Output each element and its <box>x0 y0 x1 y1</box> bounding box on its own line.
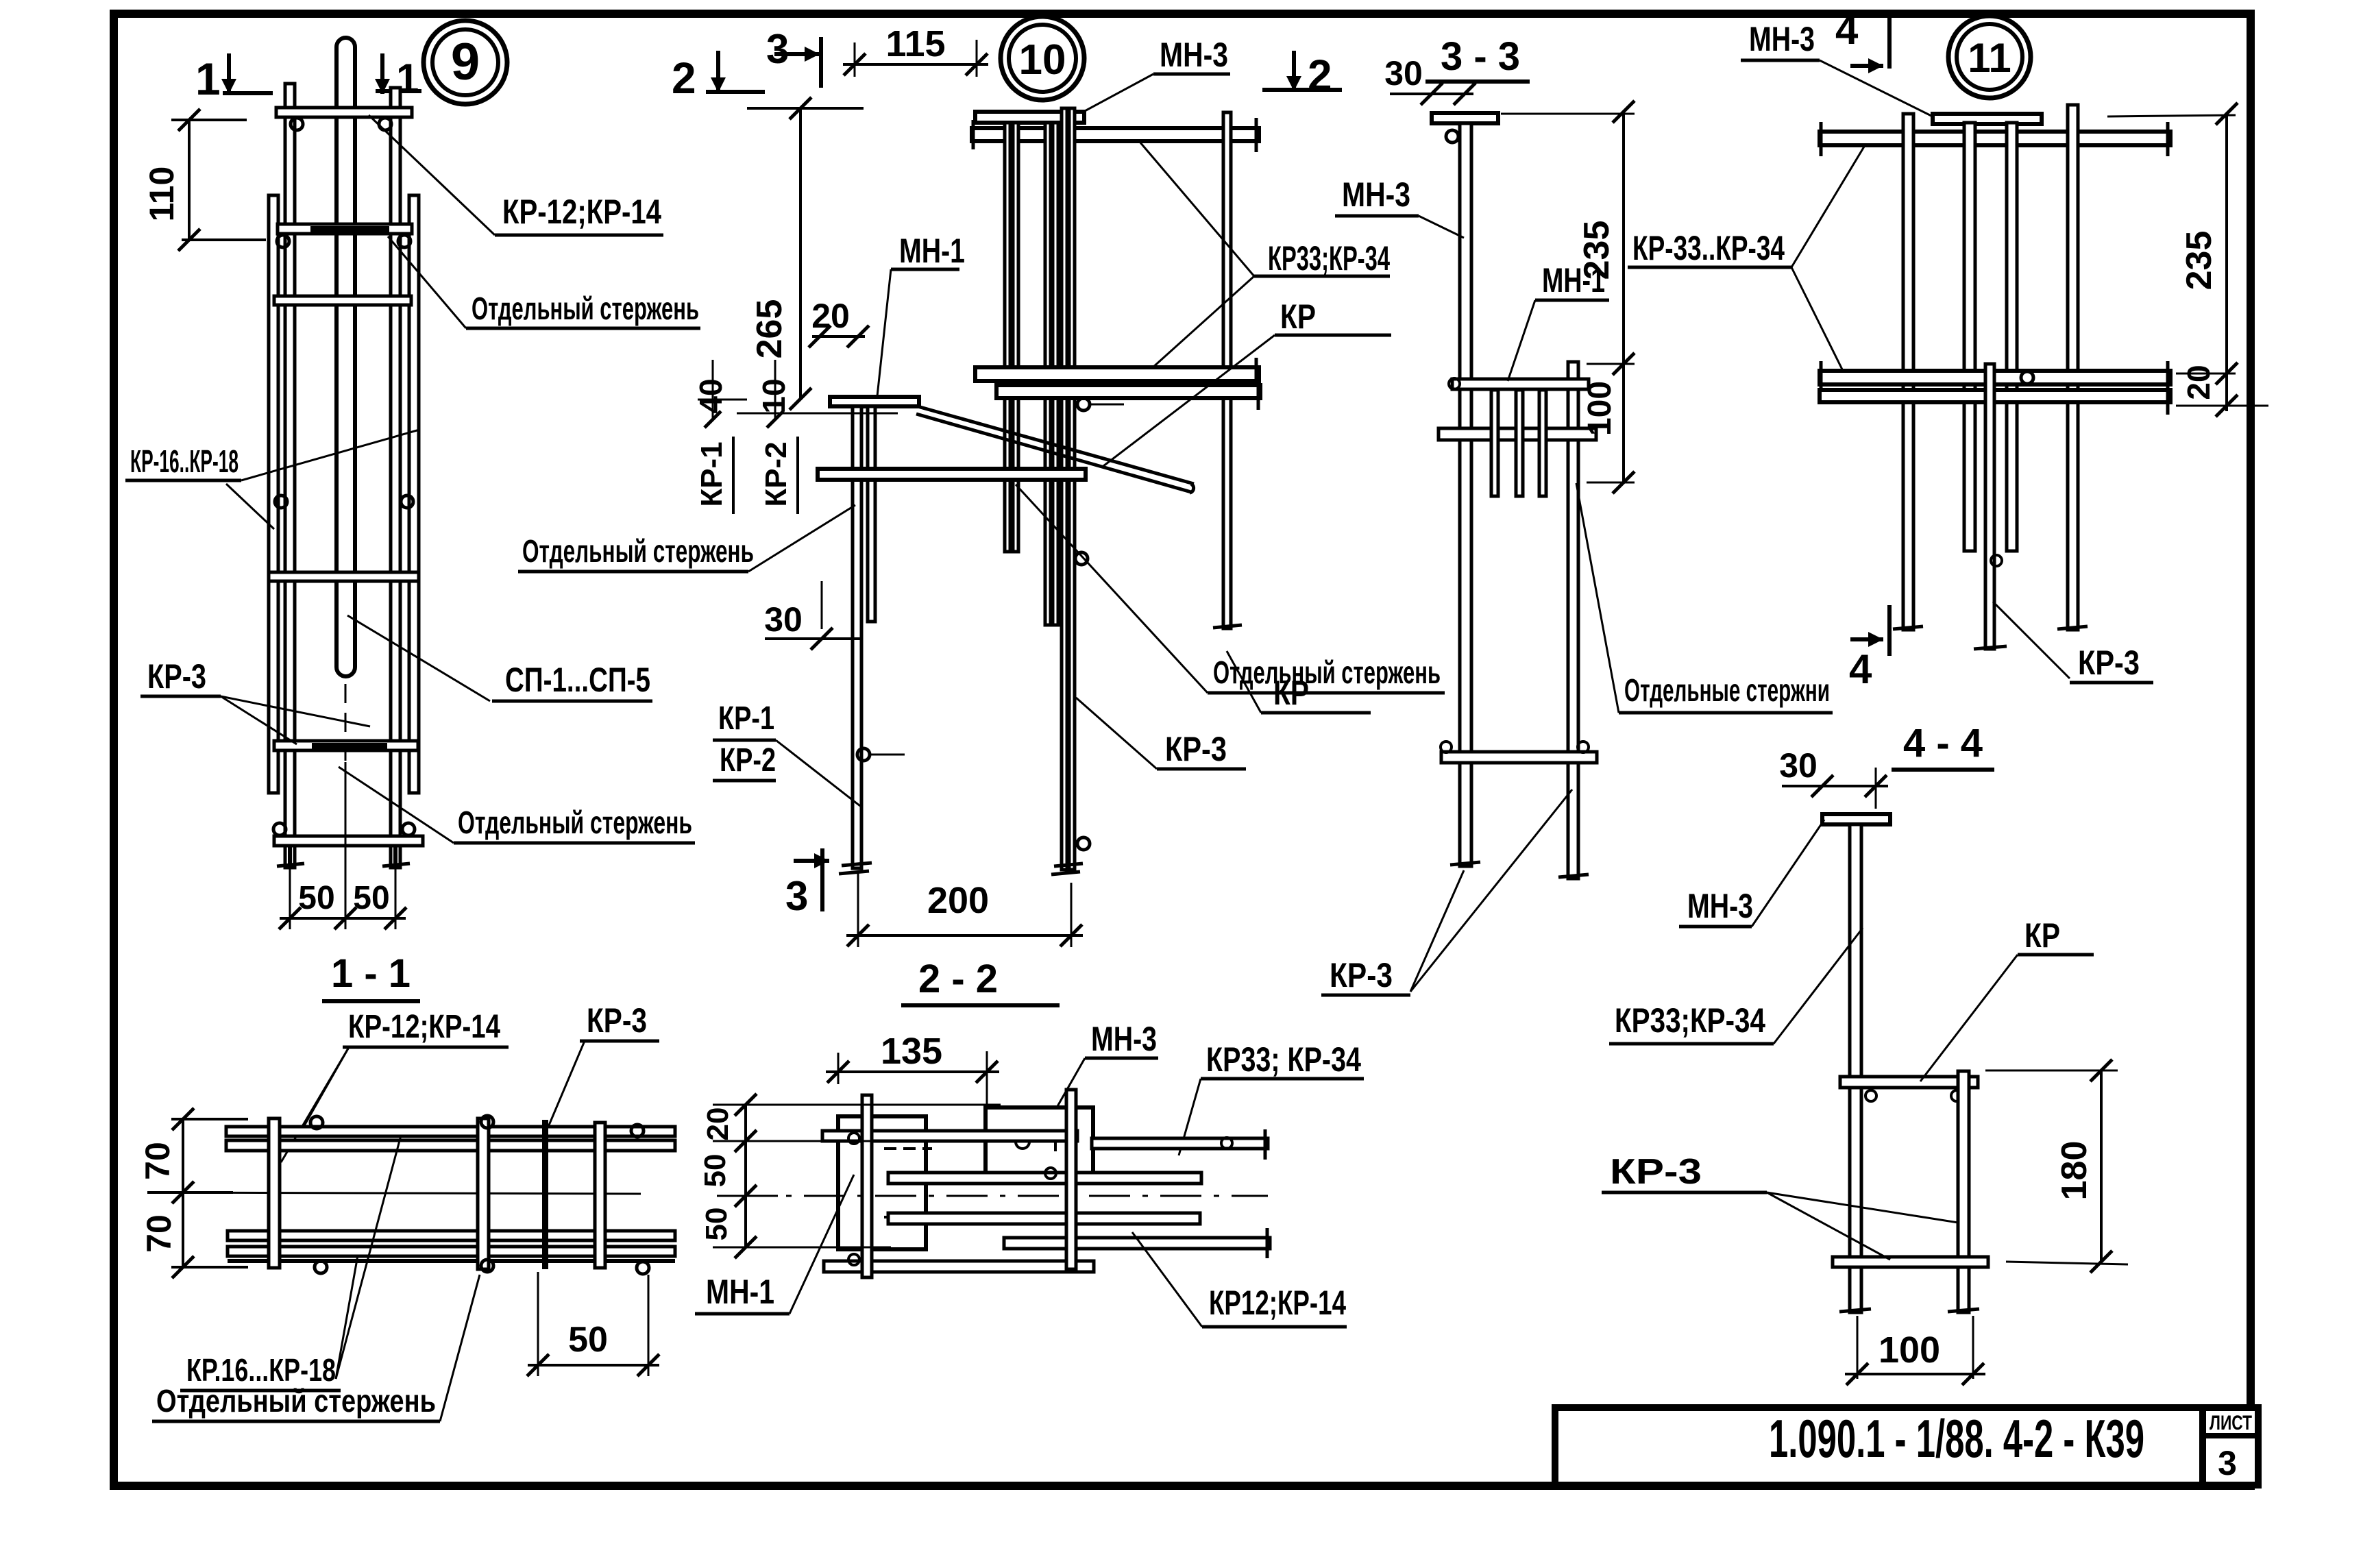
section 1-1 hook circles <box>310 1116 649 1274</box>
detail 11 center short bar <box>1974 364 2007 649</box>
svg-text:2: 2 <box>1308 51 1332 100</box>
section 2-2 top bar <box>822 1131 1077 1141</box>
svg-text:115: 115 <box>885 23 945 64</box>
dimension 135 (section 2-2) <box>826 1031 999 1124</box>
svg-text:МН-3: МН-3 <box>1687 887 1753 925</box>
section 2-2 lower bar <box>888 1213 1200 1224</box>
section 1-1 axis line <box>147 1192 641 1194</box>
detail 9 dashed centerline <box>345 684 347 762</box>
label KR-3 (detail 9) <box>140 657 370 744</box>
detail 11 vertical bar 4 <box>2057 105 2088 630</box>
detail 11 vertical bar 3 <box>2007 123 2017 551</box>
label KR lower (detail 10) <box>1227 651 1371 713</box>
detail 9 rung 1 <box>276 108 412 117</box>
label MN-1 (section 2-2) <box>695 1175 854 1314</box>
detail 11 top long bar <box>1820 122 2170 156</box>
label MN-3 (detail 10) <box>1075 36 1230 117</box>
svg-text:Отдельный стержень: Отдельный стержень <box>472 291 699 326</box>
section title 1-1 <box>322 951 420 1001</box>
section mark 4 (top) <box>1835 7 1889 73</box>
svg-text:МН-3: МН-3 <box>1160 36 1228 74</box>
detail 9 outer right rail <box>409 195 419 793</box>
section 2-2 vertical bar right <box>1066 1090 1076 1269</box>
detail 10 top plate <box>975 112 1084 123</box>
svg-text:МН-1: МН-1 <box>899 232 965 270</box>
svg-text:40: 40 <box>693 378 729 413</box>
title block LIST box <box>2203 1408 2258 1485</box>
svg-text:КР-3: КР-3 <box>147 657 206 696</box>
detail 9 legs below plate <box>277 846 410 868</box>
label KR-3 (section 3-3) <box>1321 789 1572 995</box>
detail 9 inner left rail <box>285 84 295 868</box>
svg-text:3: 3 <box>766 26 789 72</box>
label Otdelnye sterzhni (section 3-3) <box>1576 483 1833 713</box>
detail 10 vertical pair B long <box>1051 108 1083 874</box>
detail 10 left vertical long leg <box>839 406 872 874</box>
detail 10 mid bar 1 <box>975 358 1259 392</box>
section mark 2 (left) <box>672 51 765 103</box>
section mark 3 (top) <box>766 26 821 88</box>
detail 11 vertical bar 2 <box>1964 123 1975 551</box>
label MN-3 (section 4-4) <box>1679 820 1824 927</box>
label Otdelnyj sterzhen (section 1-1) <box>152 1275 480 1421</box>
svg-text:КР-3: КР-3 <box>1330 956 1393 994</box>
detail 11 vertical bar 1 <box>1893 114 1923 630</box>
label KR-16...KR-18 (section 1-1) <box>180 1136 401 1391</box>
dimension 70/70 (section 1-1) <box>138 1108 248 1278</box>
section 2-2 bottom long bar <box>1004 1228 1270 1258</box>
svg-text:50: 50 <box>353 880 389 916</box>
svg-text:265: 265 <box>750 299 790 359</box>
detail 11 top plate <box>1933 114 2042 124</box>
svg-text:30: 30 <box>1779 746 1818 785</box>
svg-text:11: 11 <box>1968 35 2011 81</box>
svg-text:4: 4 <box>1849 646 1872 692</box>
label KR-3 (section 1-1) <box>545 1001 659 1135</box>
detail 9 rung 4 <box>269 572 419 581</box>
section 3-3 main vertical bar <box>1450 123 1480 866</box>
svg-text:МН-3: МН-3 <box>1749 20 1815 58</box>
svg-text:КР-3: КР-3 <box>1610 1152 1702 1192</box>
section 1-1 vertical connector A <box>269 1118 280 1268</box>
dimension 110 (detail 9) <box>143 109 266 251</box>
label KR33;KR-34 (detail 10) <box>1140 142 1390 368</box>
label KR-16..KR-18 (detail 9) <box>125 430 419 529</box>
section 3-3 plate pair <box>1452 379 1589 389</box>
section 3-3 top plate <box>1432 113 1498 123</box>
svg-text:Отдельные стержни: Отдельные стержни <box>1624 672 1830 708</box>
label KR33;KR-34 (section 2-2) <box>1179 1040 1364 1155</box>
dimension 50/50 (detail 9 bottom) <box>279 762 406 929</box>
svg-text:20: 20 <box>701 1107 735 1141</box>
svg-text:КР-2: КР-2 <box>759 441 793 506</box>
detail 10 top long bar <box>972 118 1259 152</box>
svg-text:50: 50 <box>568 1320 608 1360</box>
svg-text:Отдельный стержень: Отдельный стержень <box>458 805 692 840</box>
detail 10 vertical bar C <box>1213 112 1242 628</box>
dimension 30 (section 3-3) <box>1384 54 1476 105</box>
dimension 20 (detail 10) <box>809 297 869 347</box>
label Otdelnyj sterzhen (detail 10 left) <box>518 505 855 572</box>
section mark 2 (right) <box>1262 51 1342 100</box>
label Otdelnyj sterzhen (detail 9 lower) <box>339 767 695 843</box>
svg-text:200: 200 <box>927 880 989 921</box>
section 3-3 hanging bar 2 <box>1516 390 1523 496</box>
detail 10 left plate <box>830 397 919 406</box>
detail circle 9 <box>424 21 507 104</box>
svg-text:3 - 3: 3 - 3 <box>1441 34 1520 79</box>
label KR-12;KR-14 (detail 9) <box>369 115 663 235</box>
section 2-2 plate MN-1 <box>838 1109 932 1258</box>
label KR-3 (detail 11) <box>1993 602 2153 683</box>
section mark 4 (bottom) <box>1849 605 1889 692</box>
detail 9 hook circles <box>273 118 415 835</box>
detail 11 mid bar 1 <box>1820 361 2170 395</box>
detail 9 central bar SP (capsule) <box>336 38 355 676</box>
label SP-1...SP-5 (detail 9) <box>347 615 652 701</box>
section 4-4 main vertical bar <box>1839 824 1871 1312</box>
svg-text:КР-2: КР-2 <box>720 742 776 779</box>
svg-text:100: 100 <box>1582 381 1618 436</box>
svg-text:ЛИСТ: ЛИСТ <box>2210 1412 2252 1434</box>
label KR33;KR-34 (section 4-4) <box>1609 928 1863 1044</box>
dimension 265 (detail 10) <box>747 97 864 410</box>
section 4-4 right vertical bar <box>1948 1071 1979 1312</box>
label KR (section 4-4) <box>1920 916 2094 1081</box>
svg-text:КР-3: КР-3 <box>587 1001 647 1040</box>
svg-text:3: 3 <box>785 873 808 919</box>
detail 10 horizontal bar y690 <box>818 469 1086 480</box>
svg-text:180: 180 <box>2055 1141 2094 1201</box>
section 2-2 bottom left bar <box>824 1261 1094 1272</box>
svg-text:КР: КР <box>1273 674 1309 712</box>
section 2-2 axis dashed line <box>733 1195 1268 1197</box>
label MN-1 (detail 10) <box>877 232 965 396</box>
dimension 20/50/50 column (section 2-2) <box>698 1094 1001 1258</box>
section 1-1 vertical connector C <box>542 1120 548 1269</box>
detail circle 11 <box>1948 16 2031 98</box>
label KR upper (detail 10) <box>1103 297 1391 466</box>
dimension 30 (section 4-4) <box>1779 746 1888 809</box>
label KR-1 rotated (detail 10) <box>695 437 733 514</box>
svg-text:50: 50 <box>698 1154 732 1188</box>
dimension 30 (detail 10 left) <box>764 581 861 650</box>
svg-text:30: 30 <box>764 600 803 639</box>
section title 3-3 <box>1425 34 1530 82</box>
svg-text:2 - 2: 2 - 2 <box>918 957 998 1001</box>
svg-text:70: 70 <box>140 1214 178 1253</box>
detail 9 inner right rail <box>391 88 400 868</box>
svg-text:КР-1: КР-1 <box>718 700 774 737</box>
svg-text:КР-33..КР-34: КР-33..КР-34 <box>1632 229 1785 267</box>
section 4-4 mid bar <box>1840 1077 1978 1101</box>
svg-text:КР12;КР-14: КР12;КР-14 <box>1209 1284 1346 1322</box>
detail 10 left vertical short leg <box>868 406 875 622</box>
detail 10 hook circles <box>857 398 1090 850</box>
dimension 200 (detail 10) <box>846 872 1083 947</box>
detail 9 rung 3 <box>274 296 411 305</box>
section 2-2 hook circles <box>848 1133 1056 1265</box>
svg-text:50: 50 <box>298 880 334 916</box>
section mark 1 (right) <box>375 53 421 101</box>
section 4-4 bottom bar <box>1833 1257 1988 1267</box>
svg-text:50: 50 <box>700 1208 733 1241</box>
svg-text:100: 100 <box>1879 1330 1940 1371</box>
svg-text:10: 10 <box>1019 36 1066 84</box>
dimension 10 rotated (detail 10) <box>737 360 898 428</box>
label KR-33..KR-34 (between 3-3 and 11) <box>1628 143 1866 376</box>
svg-text:110: 110 <box>143 167 181 222</box>
detail 9 bottom plate <box>274 836 423 846</box>
svg-text:1.090.1 - 1/88. 4-2 - К39: 1.090.1 - 1/88. 4-2 - К39 <box>1769 1408 2144 1469</box>
dimension 235/20 (detail 11) <box>2107 103 2268 417</box>
svg-text:КР-12;КР-14: КР-12;КР-14 <box>502 193 661 231</box>
svg-text:Отдельный стержень: Отдельный стержень <box>1213 654 1441 690</box>
label KR-1/KR-2 stacked (detail 10) <box>713 700 860 806</box>
section title 2-2 <box>901 957 1060 1005</box>
detail 10 hook stub lines <box>870 404 1124 755</box>
svg-text:КР-16..КР-18: КР-16..КР-18 <box>130 443 238 479</box>
svg-text:КР-3: КР-3 <box>2078 644 2140 682</box>
section mark 3 (bottom) <box>785 848 829 919</box>
label KR-2 rotated (detail 10) <box>759 437 798 514</box>
detail 11 mid bar 2 <box>1820 380 2170 415</box>
dimension 50 (section 1-1) <box>527 1272 659 1376</box>
section 3-3 hanging bar 3 <box>1539 390 1546 496</box>
svg-text:Отдельный стержень: Отдельный стержень <box>156 1383 436 1419</box>
svg-text:МН-1: МН-1 <box>1542 261 1605 299</box>
svg-text:МН-1: МН-1 <box>706 1273 774 1311</box>
detail 9 rung 5 <box>274 741 418 750</box>
svg-text:4: 4 <box>1835 7 1859 53</box>
svg-text:КР: КР <box>2024 916 2060 955</box>
svg-text:135: 135 <box>881 1031 942 1072</box>
label KR-3 (section 4-4) <box>1602 1152 1958 1260</box>
detail 11 hook circles <box>1991 371 2033 566</box>
section title 4-4 <box>1892 721 1994 770</box>
label MN-3 (detail 11) <box>1741 20 1933 117</box>
label KR-12;KR-14 (section 1-1) <box>281 1009 509 1162</box>
section 2-2 mid bar <box>888 1173 1201 1184</box>
svg-text:Отдельный стержень: Отдельный стержень <box>522 533 754 569</box>
section 1-1 top rail <box>226 1127 675 1151</box>
svg-text:10: 10 <box>756 378 792 413</box>
dimension 235/100 (section 3-3) <box>1501 101 1635 493</box>
svg-text:1 - 1: 1 - 1 <box>331 951 411 996</box>
section 3-3 right vertical bar <box>1558 362 1589 879</box>
svg-text:КР33;КР-34: КР33;КР-34 <box>1268 239 1390 278</box>
svg-text:4 - 4: 4 - 4 <box>1903 721 1983 765</box>
section 1-1 bottom rail <box>228 1231 675 1261</box>
detail 9 rung 2 <box>278 224 412 234</box>
svg-text:МН-3: МН-3 <box>1091 1020 1157 1058</box>
label MN-1 (section 3-3) <box>1508 261 1609 381</box>
label KR-2 below (detail 10) <box>713 742 776 781</box>
svg-text:КР33; КР-34: КР33; КР-34 <box>1206 1040 1361 1079</box>
section 1-1 vertical connector B <box>478 1118 489 1269</box>
detail 9 outer left rail <box>269 195 278 793</box>
detail 10 vertical pair A <box>1005 123 1018 552</box>
svg-text:СП-1...СП-5: СП-1...СП-5 <box>505 661 650 699</box>
section 2-2 right top bar <box>1092 1129 1268 1160</box>
label KR-3 (detail 10) <box>1076 698 1246 769</box>
section 2-2 plate MN-3 <box>986 1107 1093 1181</box>
label Otdelnyj sterzhen (detail 10 right) <box>1016 485 1445 693</box>
svg-text:235: 235 <box>2179 231 2219 291</box>
svg-text:20: 20 <box>2181 365 2216 400</box>
dimension 115 (detail 10) <box>843 23 988 77</box>
dimension 40 rotated (detail 10) <box>693 360 747 428</box>
section 2-2 vertical bar left <box>862 1095 872 1277</box>
svg-text:КР-12;КР-14: КР-12;КР-14 <box>348 1009 500 1045</box>
label MN-3 (section 3-3) <box>1335 175 1464 238</box>
detail 10 mid bar 2 <box>996 376 1260 410</box>
section mark 1 (top-left) <box>195 53 273 104</box>
svg-text:70: 70 <box>138 1142 177 1180</box>
svg-text:КР33;КР-34: КР33;КР-34 <box>1615 1001 1765 1040</box>
detail 10 vertical pair B short <box>1045 123 1058 625</box>
section 1-1 vertical connector D <box>595 1123 605 1268</box>
section 3-3 hanging bar 1 <box>1491 390 1498 496</box>
svg-text:30: 30 <box>1384 54 1423 93</box>
svg-text:2: 2 <box>672 53 696 103</box>
svg-text:20: 20 <box>811 297 850 335</box>
svg-text:МН-3: МН-3 <box>1342 175 1410 214</box>
svg-text:3: 3 <box>2218 1444 2237 1482</box>
svg-text:КР-1: КР-1 <box>695 441 729 506</box>
svg-text:КР-3: КР-3 <box>1165 730 1227 768</box>
dimension 180 (section 4-4) <box>1985 1059 2128 1273</box>
section 4-4 top plate <box>1822 814 1890 824</box>
svg-text:1: 1 <box>195 53 221 104</box>
section 3-3 upper bar <box>1439 428 1596 440</box>
section 3-3 hook circles <box>1441 130 1589 752</box>
section 3-3 lower bar <box>1441 752 1597 763</box>
svg-text:9: 9 <box>451 33 480 91</box>
detail 10 diagonal rod <box>916 406 1194 493</box>
svg-text:КР: КР <box>1280 297 1316 336</box>
label Otdelnyj sterzhen (detail 9 upper) <box>388 236 700 328</box>
label KR12;KR-14 (section 2-2) <box>1132 1232 1347 1327</box>
label MN-3 (section 2-2) <box>1049 1020 1158 1122</box>
title block main box <box>1555 1408 2203 1485</box>
detail circle 10 <box>1001 16 1084 100</box>
dimension 100 (section 4-4) <box>1845 1316 1985 1385</box>
